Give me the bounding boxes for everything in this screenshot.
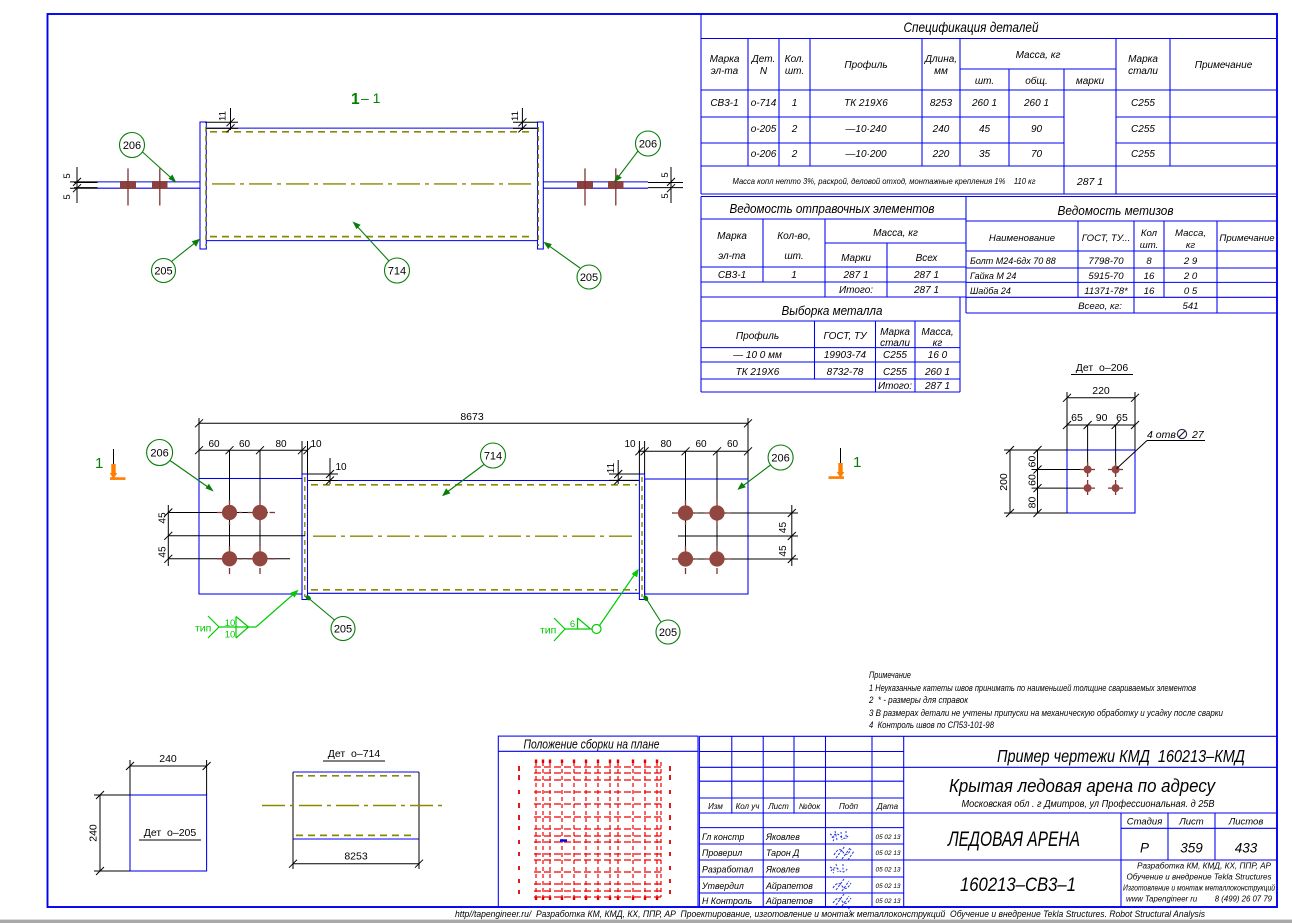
detail o-714 tube (293, 771, 419, 773)
hole 2 (1108, 462, 1124, 478)
flange left (plan) (302, 474, 308, 600)
svg-text:Всего, кг:: Всего, кг: (1078, 301, 1122, 312)
svg-text:Профиль: Профиль (736, 330, 779, 342)
svg-text:240: 240 (932, 124, 950, 135)
svg-text:8673: 8673 (460, 411, 484, 423)
svg-text:65: 65 (1071, 412, 1083, 424)
svg-text:11371-78*: 11371-78* (1084, 286, 1128, 297)
tube inner wall dashed top (210, 131, 534, 133)
o-714 centerline (262, 805, 446, 807)
svg-text:Кол: Кол (1141, 228, 1158, 239)
svg-text:Изм: Изм (708, 802, 723, 811)
svg-text:кг: кг (933, 338, 943, 349)
dim 45/45 right (672, 505, 798, 566)
svg-text:8732-78: 8732-78 (827, 367, 864, 378)
dim 240 top (o-205) (126, 760, 211, 795)
callout 714 (plan) (481, 443, 506, 468)
svg-text:80: 80 (275, 439, 287, 450)
svg-text:Масса копл нетто 3%, раскрой,: Масса копл нетто 3%, раскрой, деловой от… (733, 176, 1037, 186)
metal rows (732, 350, 950, 392)
plate o-206 outline (1067, 450, 1135, 513)
svg-text:шт.: шт. (785, 66, 804, 77)
callout 206 left (plan) (147, 440, 173, 466)
dim 11 left (flange to tube wall) (205, 108, 238, 132)
svg-text:С255: С255 (1131, 98, 1155, 109)
position box frame (498, 736, 698, 907)
position box header line (498, 750, 698, 752)
building grid red edge marks bottom (536, 897, 657, 901)
svg-text:160213–СВ3–1: 160213–СВ3–1 (960, 875, 1076, 896)
svg-text:714: 714 (484, 451, 502, 463)
svg-text:стали: стали (1128, 66, 1158, 77)
svg-text:45: 45 (979, 124, 991, 135)
svg-text:10: 10 (225, 618, 236, 629)
svg-text:1: 1 (351, 91, 360, 108)
right stud rod (section) (543, 181, 648, 183)
svg-text:Положение сборки на плане: Положение сборки на плане (524, 738, 660, 752)
plan centerline (313, 535, 633, 537)
svg-text:8253: 8253 (344, 851, 368, 863)
left rod nut 2 (152, 181, 168, 189)
svg-text:5915-70: 5915-70 (1088, 271, 1124, 282)
flange left dashed line (304, 477, 306, 597)
svg-text:27: 27 (1191, 429, 1205, 441)
svg-text:стали: стали (880, 338, 910, 349)
svg-text:Марка: Марка (880, 327, 910, 338)
left rod end black lines (74, 182, 98, 184)
svg-text:http//tapengineer.ru/ Разрабо: http//tapengineer.ru/ Разработка КМ, КМД… (455, 909, 1205, 919)
svg-text:5: 5 (62, 173, 73, 178)
svg-text:Длина,: Длина, (924, 54, 957, 65)
building grid red edge marks top (536, 760, 657, 764)
dim 60 60 80 (left) (1032, 446, 1091, 517)
svg-text:1: 1 (853, 454, 861, 471)
svg-text:Тарон Д: Тарон Д (766, 848, 799, 858)
svg-text:Московская обл . г Дмитров, у: Московская обл . г Дмитров, ул Профессио… (962, 799, 1215, 810)
callout 714 (section) (385, 258, 410, 283)
tube inner dashed top (plan) (311, 484, 637, 486)
left rod nut 1 (120, 181, 136, 189)
svg-text:Ведомость отправочных элементо: Ведомость отправочных элементов (730, 201, 935, 216)
svg-text:05 02 13: 05 02 13 (876, 834, 901, 841)
revision header row (708, 802, 899, 811)
svg-text:10: 10 (225, 630, 236, 641)
svg-text:1: 1 (792, 98, 798, 109)
svg-text:90: 90 (1031, 124, 1043, 135)
svg-text:3 В размерах детали не учтены: 3 В размерах детали не учтены припуски н… (869, 708, 1223, 718)
svg-text:205: 205 (154, 266, 172, 278)
hole 3 (1080, 480, 1096, 496)
building grid red side ticks right (669, 766, 671, 894)
svg-text:6: 6 (570, 619, 575, 630)
svg-text:Марки: Марки (841, 253, 871, 264)
signature role rows (701, 832, 813, 906)
svg-text:шт.: шт. (975, 76, 994, 87)
svg-text:общ.: общ. (1025, 75, 1047, 87)
svg-text:Айрапетов: Айрапетов (765, 896, 813, 906)
svg-text:60: 60 (1027, 474, 1039, 486)
svg-text:Пример чертежи КМД 160213–КМД: Пример чертежи КМД 160213–КМД (997, 746, 1245, 766)
svg-text:220: 220 (1092, 385, 1110, 397)
tube o-714 top wall (section) (206, 127, 537, 129)
svg-text:о-206: о-206 (751, 149, 777, 160)
flange thickness dim 11 (right plan) (609, 460, 639, 484)
svg-text:Масса,: Масса, (921, 327, 953, 338)
svg-text:ГОСТ, ТУ: ГОСТ, ТУ (823, 331, 868, 342)
svg-text:тип: тип (195, 623, 211, 635)
detail o-205 plate (130, 795, 207, 871)
tube inner dashed bottom (plan) (311, 589, 637, 591)
svg-text:10: 10 (335, 462, 347, 473)
end plate right (plan) (645, 479, 748, 594)
svg-text:кг: кг (1186, 240, 1196, 251)
right rod nut 1 (577, 181, 593, 189)
shipping table grid (701, 197, 1277, 314)
dim 5/5 right (667, 167, 675, 203)
o-714 inner dashed walls (296, 775, 416, 777)
svg-text:541: 541 (1182, 301, 1198, 312)
flange right dashed line (641, 477, 643, 597)
svg-text:Стадия: Стадия (1127, 817, 1163, 828)
svg-text:С255: С255 (883, 350, 907, 361)
svg-text:Примечание: Примечание (869, 670, 911, 680)
section mark 1 right (840, 448, 842, 473)
left stud rod (section) (98, 181, 201, 183)
svg-text:Дет о–714: Дет о–714 (328, 748, 381, 760)
svg-text:80: 80 (660, 439, 672, 450)
svg-text:240: 240 (159, 753, 177, 765)
svg-text:Крытая ледовая арена по адресу: Крытая ледовая арена по адресу (949, 775, 1217, 796)
dim 240 left (o-205) (94, 791, 130, 875)
svg-text:287 1: 287 1 (1076, 176, 1103, 188)
stage/sheet values (1140, 841, 1258, 856)
callout 205 left (section) (152, 259, 176, 283)
svg-text:60: 60 (208, 439, 220, 450)
svg-text:ГОСТ, ТУ...: ГОСТ, ТУ... (1082, 233, 1131, 244)
svg-text:Профиль: Профиль (844, 59, 887, 71)
svg-text:359: 359 (1180, 841, 1203, 856)
svg-text:8 (499) 26 07 79: 8 (499) 26 07 79 (1215, 895, 1273, 904)
svg-text:1: 1 (95, 455, 103, 472)
svg-text:205: 205 (334, 624, 352, 636)
svg-text:287 1: 287 1 (913, 270, 939, 281)
hole 1 (1080, 462, 1096, 478)
svg-text:5: 5 (660, 193, 671, 198)
svg-text:206: 206 (639, 139, 657, 151)
dim row left 60 60 80 10 (195, 441, 312, 559)
svg-text:260 1: 260 1 (924, 367, 950, 378)
svg-text:Итого:: Итого: (839, 285, 873, 296)
svg-text:11: 11 (606, 462, 617, 473)
tube o-714 bottom wall (section) (206, 240, 537, 242)
svg-text:эл-та: эл-та (718, 251, 746, 262)
svg-text:Лист: Лист (1178, 817, 1204, 828)
svg-text:206: 206 (150, 448, 168, 460)
dim 45/45 left (164, 505, 305, 566)
svg-text:Масса, кг: Масса, кг (873, 228, 918, 239)
svg-text:Кол уч: Кол уч (736, 802, 760, 811)
svg-text:СВ3-1: СВ3-1 (710, 98, 738, 109)
svg-text:05 02 13: 05 02 13 (876, 883, 901, 890)
svg-text:Изготовление и монтаж металлок: Изготовление и монтаж металлоконструкций (1123, 884, 1276, 893)
svg-text:714: 714 (388, 266, 406, 278)
svg-text:2 0: 2 0 (1183, 271, 1198, 282)
svg-text:7798-70: 7798-70 (1088, 256, 1124, 267)
dim row right 10 80 60 60 (635, 441, 752, 559)
svg-text:11: 11 (218, 111, 229, 121)
svg-text:8: 8 (1146, 256, 1152, 267)
svg-text:Шайба 24: Шайба 24 (970, 286, 1011, 296)
dim 8253 (o-714) (289, 839, 423, 869)
left flange plate o-205 (section) (200, 122, 206, 249)
svg-text:– 1: – 1 (361, 90, 381, 106)
right rod nut 2 (608, 181, 624, 189)
svg-text:205: 205 (580, 272, 598, 284)
svg-text:45: 45 (778, 545, 789, 557)
svg-text:ТК 219X6: ТК 219X6 (736, 367, 780, 378)
dim 220 (1063, 392, 1139, 450)
svg-text:тип: тип (540, 625, 556, 637)
bolt group right: 4 bolts M24 (673, 500, 731, 574)
date column entries (876, 834, 901, 905)
svg-text:о-714: о-714 (751, 98, 777, 109)
dim 65 90 65 (1063, 421, 1139, 470)
right rod nut 2 centerline (615, 168, 617, 205)
svg-text:ЛЕДОВАЯ АРЕНА: ЛЕДОВАЯ АРЕНА (947, 828, 1080, 851)
spec headers (710, 50, 1253, 87)
right flange inner dashed line (537, 127, 539, 246)
svg-text:www Tapengineer ru: www Tapengineer ru (1126, 895, 1198, 904)
svg-text:5: 5 (660, 172, 671, 177)
svg-text:Марка: Марка (710, 54, 740, 65)
svg-text:о-205: о-205 (751, 124, 777, 135)
svg-text:45: 45 (158, 546, 169, 558)
flange right (plan) (639, 474, 644, 600)
svg-text:2: 2 (791, 124, 798, 135)
svg-text:45: 45 (158, 512, 169, 524)
svg-text:60: 60 (239, 439, 251, 450)
svg-text:Дет о–205: Дет о–205 (144, 827, 197, 839)
svg-text:260 1: 260 1 (971, 98, 997, 109)
svg-text:N: N (760, 66, 768, 77)
hardware table grid (966, 221, 1277, 313)
end plate left (plan) (199, 479, 302, 595)
tube centerline (section) (212, 183, 534, 185)
left rod nut 1 centerline (127, 168, 129, 205)
svg-text:С255: С255 (1131, 124, 1155, 135)
svg-text:05 02 13: 05 02 13 (876, 867, 901, 874)
stage/sheet header (1127, 817, 1264, 828)
dim 200 (left overall) (1004, 446, 1067, 517)
svg-text:марки: марки (1076, 76, 1105, 87)
svg-text:1: 1 (791, 270, 797, 281)
svg-text:С255: С255 (883, 367, 907, 378)
left rod nut 2 centerline (159, 168, 161, 205)
spec data rows (710, 98, 1155, 160)
svg-text:шт.: шт. (784, 251, 803, 262)
shipping headers (717, 228, 938, 264)
weld symbol left (tip 10/10) (208, 592, 297, 639)
building grid (red) vertical axes (536, 762, 661, 897)
svg-text:шт.: шт. (1140, 240, 1159, 251)
callout 206 right (section) (636, 131, 661, 156)
svg-text:200: 200 (998, 473, 1010, 491)
metal headers (736, 327, 954, 349)
svg-text:433: 433 (1235, 841, 1258, 856)
svg-text:70: 70 (1031, 149, 1043, 160)
svg-text:— 10 0 мм: — 10 0 мм (732, 350, 782, 361)
svg-text:Разработка КМ, КМД, КХ, ППР, А: Разработка КМ, КМД, КХ, ППР, АР (1137, 862, 1272, 871)
svg-text:Болт М24-6дх 70 88: Болт М24-6дх 70 88 (970, 256, 1056, 266)
svg-text:Кол.: Кол. (785, 54, 805, 65)
svg-text:Разработал: Разработал (702, 865, 753, 875)
svg-text:206: 206 (771, 453, 789, 465)
svg-text:16 0: 16 0 (928, 350, 948, 361)
svg-text:19903-74: 19903-74 (824, 350, 867, 361)
svg-text:Марка: Марка (717, 231, 747, 242)
right flange plate o-205 (section) (538, 122, 544, 249)
svg-text:Р: Р (1140, 841, 1149, 856)
flange thickness dim 10 (left plan) (308, 458, 339, 485)
bolt group left: 4 bolts M24 (217, 500, 275, 574)
callout 206 left (section) (120, 133, 145, 158)
svg-text:11: 11 (510, 111, 521, 121)
svg-text:05 02 13: 05 02 13 (876, 850, 901, 857)
callout 206 right (plan) (768, 445, 793, 470)
title block grid (699, 736, 1277, 907)
weld symbol right (tip 6, weld all around) (554, 571, 637, 641)
callout 205 right (section) (577, 265, 601, 289)
shipping data (718, 270, 939, 296)
svg-text:СВ3-1: СВ3-1 (718, 270, 746, 281)
svg-text:Спецификация деталей: Спецификация деталей (904, 19, 1039, 35)
tube bottom (plan) (308, 592, 640, 594)
svg-text:Кол-во,: Кол-во, (777, 231, 811, 242)
svg-text:5: 5 (62, 194, 73, 199)
svg-text:206: 206 (123, 140, 141, 152)
right rod end black lines (648, 182, 683, 184)
svg-text:Проверил: Проверил (702, 848, 742, 858)
svg-text:90: 90 (1096, 412, 1108, 424)
svg-text:287 1: 287 1 (913, 285, 939, 296)
svg-text:4 отв: 4 отв (1147, 429, 1176, 441)
svg-text:220: 220 (932, 149, 950, 160)
svg-text:С255: С255 (1131, 149, 1155, 160)
svg-text:240: 240 (88, 824, 100, 842)
svg-text:80: 80 (1027, 497, 1039, 509)
building grid red side ticks left (518, 766, 520, 894)
svg-text:Листов: Листов (1228, 817, 1264, 828)
svg-text:65: 65 (1116, 412, 1128, 424)
svg-text:0 5: 0 5 (1184, 286, 1198, 297)
hardware rows (970, 256, 1056, 296)
svg-text:4 Контроль швов по СП53-101-9: 4 Контроль швов по СП53-101-98 (869, 720, 994, 730)
svg-text:Лист: Лист (767, 802, 789, 811)
hole note 4 otv d27 (1117, 441, 1148, 469)
callout 205 right (plan) (656, 620, 680, 644)
svg-text:Яковлев: Яковлев (765, 832, 800, 842)
svg-text:Дет о–206: Дет о–206 (1076, 362, 1129, 374)
svg-text:Марка: Марка (1128, 54, 1158, 65)
svg-text:Гл констр: Гл констр (702, 832, 744, 842)
svg-text:287 1: 287 1 (842, 270, 868, 281)
svg-text:№док: №док (799, 802, 822, 811)
svg-text:Масса, кг: Масса, кг (1016, 50, 1061, 61)
svg-text:Дата: Дата (876, 802, 899, 811)
svg-text:16: 16 (1144, 271, 1155, 282)
svg-text:Гайка М 24: Гайка М 24 (970, 271, 1016, 281)
callout 205 left (plan) (331, 617, 355, 641)
svg-text:2 * - размеры для справок: 2 * - размеры для справок (868, 695, 969, 705)
svg-text:260 1: 260 1 (1023, 98, 1049, 109)
svg-text:60: 60 (727, 439, 739, 450)
svg-text:Утвердил: Утвердил (701, 881, 744, 891)
svg-text:Ведомость метизов: Ведомость метизов (1058, 203, 1174, 218)
svg-text:1 Неуказанные катеты швов прин: 1 Неуказанные катеты швов принимать по н… (869, 683, 1196, 693)
dim 5/5 left (70, 167, 98, 203)
svg-text:60: 60 (695, 439, 707, 450)
right rod nut 1 centerline (584, 168, 586, 205)
svg-text:Дет.: Дет. (751, 54, 776, 65)
tube inner wall dashed bottom (210, 236, 534, 238)
svg-text:Выборка металла: Выборка металла (782, 303, 883, 318)
svg-text:Всех: Всех (916, 253, 939, 264)
svg-text:ТК 219X6: ТК 219X6 (844, 98, 888, 109)
hardware headers (989, 228, 1275, 251)
svg-text:8253: 8253 (930, 98, 953, 109)
dim 8673 overall (195, 418, 752, 479)
svg-text:2 9: 2 9 (1183, 256, 1198, 267)
svg-text:05 02 13: 05 02 13 (876, 898, 901, 905)
dim 11 right (flange to tube wall) (513, 108, 538, 132)
svg-text:Примечание: Примечание (1195, 60, 1253, 71)
building grid (red) horizontal axes (534, 767, 663, 897)
svg-text:10: 10 (624, 439, 636, 450)
svg-text:Яковлев: Яковлев (765, 865, 800, 875)
svg-text:мм: мм (934, 66, 948, 77)
tube top (plan) (308, 480, 640, 482)
svg-text:эл-та: эл-та (711, 66, 739, 77)
svg-text:Подп: Подп (839, 802, 859, 811)
svg-text:Айрапетов: Айрапетов (765, 881, 813, 891)
spec table grid (701, 14, 1277, 194)
hole 4 (1108, 480, 1124, 496)
svg-text:Примечание: Примечание (1219, 233, 1274, 244)
svg-text:Н Контроль: Н Контроль (702, 896, 752, 906)
left flange inner dashed line (205, 127, 207, 246)
svg-text:—10·240: —10·240 (844, 124, 887, 135)
section mark 1 left (113, 449, 115, 474)
svg-text:10: 10 (310, 439, 322, 450)
svg-text:2: 2 (791, 149, 798, 160)
svg-text:60: 60 (1027, 456, 1039, 468)
svg-text:35: 35 (979, 149, 991, 160)
svg-text:205: 205 (659, 627, 677, 639)
svg-text:45: 45 (778, 522, 789, 534)
svg-text:16: 16 (1144, 286, 1155, 297)
svg-text:Итого:: Итого: (878, 381, 912, 392)
metal table grid (701, 297, 960, 392)
svg-text:Масса,: Масса, (1175, 228, 1206, 239)
signatures (blue scribbles) (830, 831, 854, 912)
bottom window strip (0, 920, 1292, 923)
company credits (1123, 862, 1276, 893)
svg-text:Наименование: Наименование (989, 233, 1055, 244)
svg-text:Обучение и внедрение Tekla St: Обучение и внедрение Tekla Structures (1127, 873, 1272, 882)
svg-text:287 1: 287 1 (924, 381, 950, 392)
assembly position mark (blue) (560, 839, 567, 841)
svg-text:—10·200: —10·200 (844, 149, 887, 160)
